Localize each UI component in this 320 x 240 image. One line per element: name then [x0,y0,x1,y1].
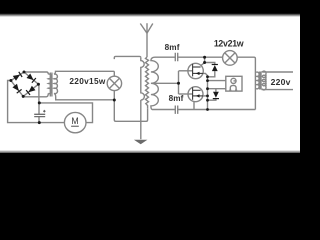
junction dot bridge bottom node [22,95,25,98]
diode VD5 upper (pointing up) [212,65,218,71]
junction dot bridge top node [23,71,26,74]
svg-text:M: M [71,116,78,126]
svg-text:220v15w: 220v15w [69,76,105,86]
antenna left prong [140,24,147,34]
wire diode VD6 cathode to emitter bus [208,99,216,101]
lamp EL1 cross [109,78,119,88]
transistor V2 emitter arrow [196,94,200,97]
base bus vertical [178,71,180,94]
transistor V2 collector inner lead [193,89,201,91]
transistor V1 collector to top rail branch [201,63,205,66]
wire lamp column top segment [113,71,115,76]
junction dot bridge right node [37,83,40,86]
junction dot emitter bus diode VD6 top [206,87,209,90]
transformer T2 ground lead [140,100,142,139]
diode VD2 top-right (pointing to right node) [26,73,36,83]
transformer T2 feedback winding (left, two bumps) [141,58,145,100]
output lead 220v top [262,71,293,73]
transistor V1 base bar [192,64,194,77]
output lead 220v bottom [262,88,293,91]
capacitor C3 8mf bottom plates [175,106,177,114]
transformer T2 primary zigzag winding [146,57,149,109]
wire base bus to transistor V2 base [179,93,193,95]
junction dot top rail diode branch [203,56,206,59]
antenna mast [146,23,148,57]
junction dot base bus mid tap [177,82,180,85]
junction dot bottom rail at capacitor C1 [38,121,41,124]
wire capacitor C1 bottom plate to bottom rail [38,117,40,123]
junction dot emitter bus V1 [206,75,209,78]
transformer T3 primary stubs [255,72,256,89]
diode VD4 bottom-right (pointing to bottom node) [26,86,36,96]
transformer T2 secondary winding (right, four bumps) [151,57,158,109]
bridge rectifier VD1-VD4 diamond [11,72,39,96]
transistor V2 emitter out to bus [203,95,208,97]
junction dot DC rail left [38,101,41,104]
transformer T1 secondary winding [54,74,58,94]
wire diode VD6 anode to emitter bus [208,89,226,92]
wire emitter bus to vibrator box upper stub [208,80,226,82]
transistor V1 emitter out to bus [203,73,207,76]
vibrator coil symbol [231,78,236,83]
svg-text:8mf: 8mf [169,94,184,103]
wire T1 secondary bottom to lamp box bottom edge [54,93,114,99]
transistor V2 body [188,87,203,102]
transformer T1 core [50,73,52,97]
wire lamp EL2 to T3 primary column [237,57,255,109]
junction dot emitter bus diode VD6 bottom [206,99,209,102]
transformer T3 primary winding [257,72,260,89]
wire junction to capacitor C1 top plate [38,103,40,114]
wire left node down to bottom rail and to motor [8,81,65,123]
wire top node to transformer T1 primary top [24,72,48,74]
transistor V2 collector to bottom rail [193,102,195,110]
capacitor C1 electrolytic plates [34,114,45,116]
wire T2 mid tap to base bus [152,82,179,84]
wire lamp column bottom segment [113,91,115,100]
transformer T3 secondary winding [262,71,266,90]
transformer T1 primary winding [48,74,52,94]
letterbox top bar [0,0,300,17]
transistor V2 base bar [192,87,194,100]
wire diode VD5 anode to emitter bus [208,71,215,77]
svg-text:220v: 220v [271,77,291,87]
wire base bus to transistor V1 base [179,70,193,72]
motor M1 body [64,112,86,132]
junction dot bridge left node [9,79,12,82]
emitter bus vertical [207,77,209,110]
wire bottom node to transformer T1 primary bottom [23,93,48,96]
wire DC rail to motor right side [39,103,92,123]
lamp EL2 12v21w circle [223,51,238,66]
lamp EL1 220v15w circle [107,76,121,90]
transistor V2 emitter inner lead [193,95,203,97]
vibrator box outline [226,76,242,91]
junction dot emitter bus box stub [206,79,209,82]
transformer T3 core [260,72,261,90]
lamp EL2 cross [225,53,235,63]
svg-text:8mf: 8mf [165,43,180,52]
antenna right prong [147,24,153,34]
junction dot emitter bus V2 [206,95,209,98]
label plus of C1 [43,110,46,113]
top rail from cap to lamp EL2 [155,56,223,58]
transistor V1 emitter inner lead [193,72,204,74]
motor M underline [71,125,79,127]
bottom rail from T2 secondary through C3 to T3 [152,109,256,111]
wire top rail to diode VD5 cathode [205,57,215,64]
transistor V1 body [188,63,203,78]
diode VD6 lower (pointing down) [213,92,219,98]
transistor V1 emitter arrow [196,72,200,75]
transistor V1 collector inner lead [193,66,201,68]
wire right node down to capacitor junction [37,84,40,103]
junction dot diode branch bend [203,61,206,64]
junction dot emitter bus bottom rail [206,108,209,111]
capacitor C2 8mf top plates [175,53,177,62]
wire T1 secondary top to lamp box top edge [54,71,114,74]
wire lamp bottom junction down and right to oscillator coil return [114,100,147,121]
letterbox bottom bar [0,150,300,168]
wire lamp top to antenna coil bus [114,56,141,59]
diode VD3 bottom-left (pointing to bottom node) [12,84,22,94]
svg-text:12v21w: 12v21w [214,39,244,49]
vibrator contact arch [229,85,237,90]
diode VD1 top-left (pointing to top node) [13,71,23,80]
junction dot lamp box bottom right [113,99,116,102]
